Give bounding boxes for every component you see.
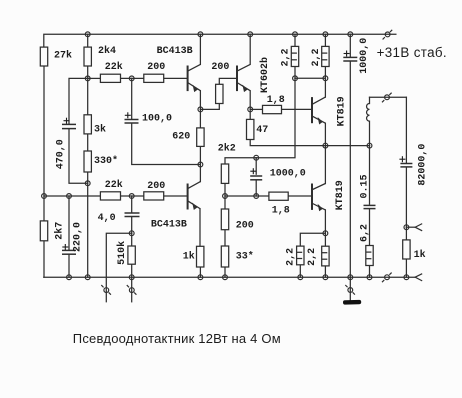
resistor 2,2 fourth striped [322,246,329,266]
wire 470,0 bottom branch to 330* bottom node [69,129,88,184]
svg-text:330*: 330* [94,155,118,167]
svg-text:200: 200 [211,62,229,73]
resistor 200 vertical lower [221,209,228,230]
wire 1k right bottom to bottom rail [405,259,407,277]
wire 82000,0 bottom to output node [405,167,407,227]
wire 1000,0 cap bottom to mid rail node [255,180,257,196]
wire node E down to 0.15 cap top [369,146,371,205]
node junction mid rail 220,0 [67,194,72,199]
svg-text:1k: 1k [183,251,195,263]
node J junction T5 emitter/2,2 pair [323,231,328,236]
wire 1000,0 supply cap top to rail [349,34,351,57]
node junction mid rail 4,0 [129,194,134,199]
svg-text:47: 47 [256,125,268,136]
wire 200 vertical lower bottom to 33* top [224,230,226,246]
node junction bottom rail 510k [129,275,134,280]
svg-text:220,0: 220,0 [72,222,83,252]
svg-text:620: 620 [172,132,190,143]
transistor T4 KT819 upper: bar, collector, emitter with arrow [312,97,325,124]
wire 470,0 top branch from node A [69,78,88,124]
svg-text:3k: 3k [94,123,106,135]
node junction bottom rail 33* [223,275,228,280]
resistor 27k [40,47,47,66]
wire input ground line down through terminal [131,277,133,302]
resistor 1k right output [403,240,410,259]
node junction bottom rail 6,2 [367,275,372,280]
resistor 330* [84,151,91,172]
capacitor 100,0 electrolytic plates [125,120,139,124]
node junction bottom rail 1k right [404,275,409,280]
svg-text:1k: 1k [414,249,426,261]
wire 1,8 lower right to T5 base [288,195,312,197]
resistor 33* [221,246,228,267]
wire output node down to 1k right top [405,227,407,240]
svg-text:2k4: 2k4 [98,45,116,57]
wire 0.15 cap bottom to 6,2 top [369,209,371,245]
node junction mid rail 2k2/200v [223,194,228,199]
plus sign 1000,0 supply [344,51,350,57]
transistor T1 BC413B upper: bar, collector, emitter with arrow [188,64,201,92]
wire 1000,0 supply cap bottom down to bottom rail [349,61,351,277]
wire 47 bottom down and right to node E feedback run [250,140,369,146]
resistor 510k [128,246,135,264]
wire input node down to 510k top [131,233,133,246]
plus sign 1000,0 bootstrap [250,168,256,174]
wire node J down to 2,2 fourth top [324,233,326,246]
resistor 2,2 second striped [322,46,329,66]
resistor 2k7 [40,221,47,241]
terminal bottom rail circle with dashed slash [382,272,392,282]
node junction supply/T1 collector [198,32,203,37]
resistor 200 lower-left [144,192,164,200]
svg-text:1000,0: 1000,0 [270,169,306,180]
wire ground stub below rail [349,277,351,300]
wire T5 emitter down to node J [324,210,326,233]
wire 2,2 fourth bottom to bottom rail [324,266,326,277]
terminal +31V supply circle with dashed slash [383,29,393,39]
node junction mid rail left column [42,194,47,199]
wire node B down to 100,0 cap top [131,78,133,119]
wire node G right to node F [295,77,325,79]
node D junction T2 emitter/47/1,8 [248,107,253,112]
node junction 330*/470,0 bottom [85,181,90,186]
wire node A to 22k left [88,77,101,79]
wire 100,0 cap bottom down and right to T3 collector node [132,123,201,164]
svg-text:27k: 27k [54,50,72,62]
svg-text:200: 200 [147,181,165,192]
node junction bottom rail 2,2 third [298,275,303,280]
svg-text:6,2: 6,2 [359,224,370,242]
wire 2,2 first top to supply rail [294,34,296,46]
svg-text:1000,0: 1000,0 [359,38,370,74]
resistor 3k [84,115,91,134]
capacitor 470,0 electrolytic plates [62,124,76,128]
wire T1 emitter down to node C [199,91,201,110]
svg-text:2,2: 2,2 [286,248,297,266]
wire node H down to 1000,0 cap top [255,158,257,175]
node A junction 2k4/22k/3k/470,0 [85,76,90,81]
wire 6,2 bottom to bottom rail [369,266,371,278]
node junction bottom rail 2,2 fourth [323,275,328,280]
node junction 100,0/620/T3 collector [198,162,203,167]
capacitor 0.15 plates [364,205,376,208]
svg-text:4,0: 4,0 [98,213,116,224]
node junction supply/T2 collector [248,32,253,37]
wire T3 collector vertical [199,165,201,182]
capacitor 4,0 plates [125,213,140,217]
resistor 1k emitter T3 [197,246,204,267]
resistor 2,2 first striped [291,46,298,66]
wire 2k4 top to supply rail [87,34,89,47]
svg-text:2,2: 2,2 [280,48,291,66]
svg-text:2,2: 2,2 [307,248,318,266]
connector chevron output mid [415,224,422,231]
svg-text:1,8: 1,8 [272,206,290,217]
resistor 1,8 upper [263,105,282,113]
node F junction 2,2 second bottom T4 collector [323,76,328,81]
svg-text:22k: 22k [105,179,123,191]
node junction supply/1000,0 [348,32,353,37]
wire 2k7 bottom down to bottom rail corner [43,241,45,277]
wire 2,2 third bottom to bottom rail [299,265,301,277]
svg-text:0.15: 0.15 [359,174,370,198]
wire T2 emitter down to node D [249,91,251,110]
svg-text:2,2: 2,2 [311,48,322,66]
wire 2,2 second top to supply rail [324,34,326,46]
wire mid rail right section to 1,8 lower [225,195,269,197]
svg-text:200: 200 [147,62,165,73]
svg-text:1,8: 1,8 [267,95,285,106]
svg-text:BC413B: BC413B [151,219,187,230]
transistor T5 KT819 lower: bar, collector, emitter with arrow [312,184,325,212]
wire coil bottom to node E [369,121,371,145]
terminal ground lead circle with dashed slash [345,285,355,295]
svg-text:22k: 22k [105,61,123,73]
node junction coil bottom/0.15 [367,143,372,148]
plus sign 220,0 [62,244,68,250]
wire T3 emitter down to 1k top [199,209,201,247]
wire node J left and down to 2,2 third top [300,233,325,246]
wire input line left from junction down through terminal [106,233,131,302]
wire 1k bottom to bottom rail [199,267,201,277]
svg-text:470,0: 470,0 [56,139,67,169]
wire node D right to 1,8 left [250,108,262,110]
wire 330* bottom down through mid rail crossing to bottom rail [87,172,89,277]
resistor 2k2 [221,164,228,183]
svg-text:200: 200 [236,221,254,232]
svg-text:33*: 33* [236,251,254,263]
wire T2 collector to supply rail [249,34,251,64]
wire mid rail 200 to T3 base [164,195,188,197]
plus sign 82000,0 [399,156,405,162]
terminal speaker loop top circle with dashed slash [382,92,392,102]
inductor L1 coil three arcs [367,104,370,122]
wire 22k right to node B [121,77,144,79]
resistor 22k upper [100,74,120,82]
wire 2,2 first bottom to node G [294,67,296,79]
node C junction T1 emitter/200v/620 [198,107,203,112]
svg-text:Псевдооднотактник 12Вт на 4 Ом: Псевдооднотактник 12Вт на 4 Ом [73,331,281,346]
transistor T3 BC413B lower: bar, collector, emitter with arrow [188,182,201,210]
node junction input/4,0/510k [129,231,134,236]
wire speaker loop top from coil to right column [370,96,407,98]
wire mid rail y196 left section [44,195,100,197]
wire 3k bottom to 330* top [87,134,89,151]
resistor 1,8 lower [269,192,288,200]
wire 220,0 cap top from mid rail node [68,196,70,250]
wire T5 collector up to node E [324,146,326,184]
node junction supply/2,2 first [293,32,298,37]
connector chevron output bottom [415,274,422,281]
node E junction feedback/T4 emitter/T5 collector [323,143,328,148]
wire node C down to 620 top [199,109,201,128]
node B junction 22k/200/100,0 [129,76,134,81]
wire 620 bottom to T3 collector node [199,146,201,164]
node junction supply/2k4 [85,32,90,37]
wire 200 right to T1 base [164,77,188,79]
svg-text:82000,0: 82000,0 [418,144,429,186]
wire 200 vertical top L-jog to T2 base [219,78,236,84]
wire node C L-jog to 200 vertical resistor bottom [200,104,219,110]
svg-text:2k2: 2k2 [218,142,236,154]
wire T1 collector to supply rail [199,34,201,64]
node G junction 2,2 first bottom [293,76,298,81]
svg-text:100,0: 100,0 [142,113,172,124]
wire right column down to 82000,0 top plate [405,97,407,163]
resistor 200 upper-left [144,74,164,82]
terminal input ground circle with dashed slash [127,285,137,295]
node junction supply/2,2 second [323,32,328,37]
wire 510k bottom to bottom rail [131,264,133,277]
wire 2k4 bottom to node A junction [87,66,89,115]
resistor 22k lower [100,192,120,200]
svg-text:+31В стаб.: +31В стаб. [377,45,447,60]
wire T4 collector up to node F [324,78,326,97]
resistor 620 [197,128,204,146]
wire 4,0 cap top from mid rail node [131,196,133,213]
svg-text:KT819: KT819 [337,96,348,126]
svg-text:510k: 510k [116,241,128,265]
resistor 47 [247,119,254,139]
node junction bottom rail 1k T3 [198,275,203,280]
plus sign 470,0 [64,118,70,124]
wire bottom ground rail [44,276,415,278]
wire node D down to 47 top [249,109,251,119]
wire left column mid rail down to 2k7 top [43,196,45,221]
resistor 200 vertical KT602 base [216,84,223,103]
capacitor 82000,0 output plates [400,164,412,167]
wire 2k2 bottom to mid rail [224,183,226,196]
wire 220,0 cap bottom to bottom rail [68,255,70,278]
node H junction 2k2/1000,0 top [254,155,259,160]
wire node G down to 2k2 top run [256,78,295,157]
wire 33* bottom to bottom rail [224,267,226,277]
wire coil top corner to node F loop [369,97,371,103]
capacitor 220,0 electrolytic plates [62,250,76,254]
transistor T2 KT602b: bar, collector, emitter with arrow [237,64,250,92]
wire 2k2 top jog to node H [225,158,256,164]
node junction bottom rail 330* column [85,275,90,280]
wire mid rail between 22k and 200 [121,195,144,197]
plus sign 100,0 [125,112,131,118]
node junction mid rail 1000,0 bottom [254,194,259,199]
svg-text:KT602b: KT602b [259,57,271,93]
node junction output mid/1k right [404,225,409,230]
svg-text:KT819: KT819 [335,180,346,210]
capacitor 1000,0 bootstrap plates [250,176,262,180]
terminal input signal circle with dashed slash [101,285,111,295]
capacitor 1000,0 supply plates [343,57,357,61]
svg-text:BC413B: BC413B [157,46,193,57]
node junction bottom rail 220,0 [67,275,72,280]
wire output node to chevron terminal [406,226,415,228]
wire 1,8 right to T4 base [282,108,312,110]
wire top supply rail +31V from left corner to terminal stub [44,34,396,47]
wire mid node down to 200 vertical lower top [224,196,226,209]
node junction bottom rail ground [348,275,353,280]
wire T4 emitter down to node E [324,123,326,145]
resistor 2,2 third striped [297,246,304,265]
wire left column 27k bottom down to mid rail [43,66,45,196]
wire 4,0 cap bottom to input node [131,217,133,233]
svg-text:2k7: 2k7 [53,222,65,240]
ground symbol thick bar [343,300,361,305]
resistor 6,2 striped [366,246,373,266]
resistor 2k4 [84,47,91,66]
wire 2,2 second bottom to node F [324,67,326,79]
